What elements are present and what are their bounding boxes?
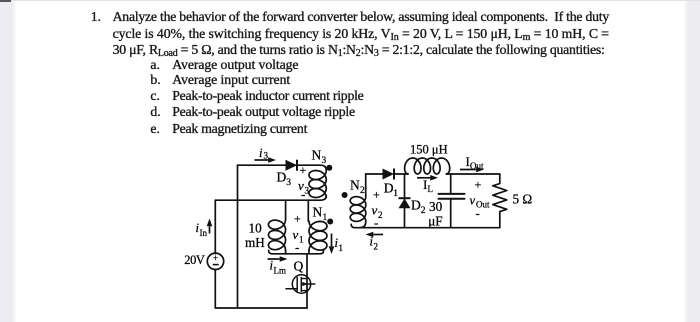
diode D3 [286,160,298,171]
wire capacitor top lead [450,174,452,193]
wire inductor to output node [446,173,500,175]
dc source V1 20V [207,253,223,269]
wire v1 bottom (Lm bottom to N1 bottom) [269,250,324,254]
current arrow IOut [460,167,484,173]
svg-text:D: D [411,198,421,213]
svg-text:N: N [312,148,322,163]
wire inner rail (source negative to D3 anode) [237,165,239,308]
label v2 minus [374,215,378,230]
label N1 [313,205,328,224]
label v1 plus [294,212,301,226]
diode D1 [383,169,395,180]
label N2 [350,178,365,197]
svg-text:Q: Q [294,259,304,274]
label 10 mH [245,221,265,251]
svg-text:3: 3 [286,178,291,188]
capacitor C 30uF [439,194,465,199]
svg-text:-: - [295,240,299,255]
label uF [428,214,442,229]
label D3 [277,170,292,189]
wire resistor bottom lead [499,212,501,228]
svg-text:+: + [300,163,307,177]
wire capacitor bottom lead [450,200,452,228]
wire secondary bottom return [351,224,500,227]
svg-text:+: + [213,254,218,264]
svg-text:+: + [373,188,380,202]
wire Lm top lead [285,200,287,219]
svg-text:In: In [200,228,208,238]
label D1 [384,181,399,200]
svg-text:-: - [476,206,480,221]
label vOut minus [476,206,480,221]
label Q [294,259,304,274]
wire top primary (D3 branch) from inner rail to N3 top [238,165,327,170]
svg-text:1: 1 [393,189,398,199]
svg-text:10: 10 [249,221,263,236]
wire source positive rail [214,200,216,253]
current arrow i2 [366,232,384,238]
label v3 minus [301,187,305,202]
label v3 plus [300,163,307,177]
svg-text:3: 3 [322,156,327,166]
winding N3 [309,171,326,198]
svg-text:5 Ω: 5 Ω [513,192,533,207]
label IL [423,177,433,194]
svg-text:L: L [428,184,434,194]
svg-text:μF: μF [428,214,442,229]
svg-text:1: 1 [323,213,328,223]
label i3 [259,146,269,161]
label i2 [370,235,379,252]
top hairline [0,0,700,1]
svg-text:i: i [259,146,263,160]
polarity dot N1 [327,219,333,225]
wire N1 top lead [307,200,309,221]
label N3 [312,148,327,167]
svg-text:D: D [384,181,394,196]
label v2 [372,203,383,221]
current arrow iLm [268,256,288,262]
label v3 [298,178,310,196]
label 20V [184,253,205,267]
winding N2 secondary [350,197,366,228]
svg-text:2: 2 [421,206,426,216]
wire bottom return [215,307,307,309]
svg-text:1: 1 [339,243,344,253]
wire source bottom lead [214,269,216,308]
svg-text:+: + [294,212,301,226]
polarity dot N3 [326,165,332,171]
svg-text:-: - [301,187,305,202]
label v2 plus [373,188,380,202]
current arrow IL [417,175,438,181]
label iin [196,221,208,238]
svg-text:150 μH: 150 μH [410,143,448,157]
wire D2 branch [404,174,406,228]
label v1 minus [295,240,299,255]
label vOut [470,194,490,210]
transistor Q MOSFET [286,275,315,293]
label v1 [293,227,304,245]
label 150 uH [410,143,448,157]
svg-text:2: 2 [374,242,379,252]
wire junction net: source positive to N3 bottom and N1 top [215,196,326,200]
current arrow iin [207,219,213,234]
svg-text:2: 2 [378,210,383,220]
svg-text:2: 2 [360,186,365,196]
current arrow i1 [329,234,335,255]
wire N2 top lead [365,174,367,197]
right page margin band [688,0,700,322]
label 5 ohm [513,192,533,207]
current arrow i3 [255,157,277,163]
diode D2 [399,198,411,208]
label i1 [335,236,344,253]
label vOut plus [475,178,482,192]
left page margin band [0,0,12,322]
svg-text:+: + [475,178,482,192]
svg-text:Out: Out [470,161,484,171]
inductor Lm 10mH magnetizing [268,220,285,254]
svg-text:N: N [350,178,360,193]
svg-text:N: N [313,205,323,220]
label iLm [270,259,287,276]
svg-text:1: 1 [299,235,304,245]
top-left corner mark [0,0,11,2]
svg-text:Lm: Lm [274,266,287,276]
wire resistor top lead [499,174,501,184]
svg-text:D: D [277,170,287,185]
svg-text:mH: mH [245,235,265,250]
svg-text:30: 30 [429,199,443,214]
polarity dot N2 [342,192,348,198]
inductor L 150uH output filter [405,158,450,174]
wire secondary top (N2 to D1 anode) [366,173,383,175]
svg-text:3: 3 [264,151,269,161]
label IOut [466,154,484,171]
problem statement text [91,10,101,24]
label 30 [429,199,443,214]
wire N1 bottom to MOSFET drain and source to bottom return [306,254,308,308]
wire D1 cathode to node B [394,173,408,175]
resistor RLoad 5 ohm [493,184,507,212]
svg-text:20V: 20V [184,253,205,267]
label D2 [411,198,426,217]
winding N1 primary [309,221,327,254]
